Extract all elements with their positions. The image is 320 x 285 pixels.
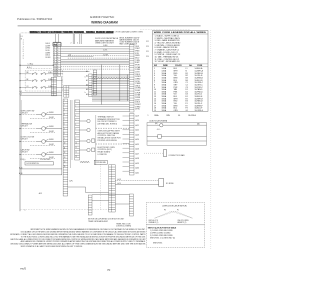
dashed link row 1	[96, 127, 130, 129]
svg-text:TIMER KEYBOARD ASSY: TIMER KEYBOARD ASSY	[88, 220, 109, 223]
svg-text:15: 15	[54, 75, 56, 77]
svg-text:B: B	[57, 57, 58, 59]
svg-text:3: 3	[23, 44, 24, 46]
wire to door motor 2	[115, 184, 159, 186]
svg-text:16-RED: 16-RED	[45, 48, 50, 50]
wire drop right	[127, 75, 129, 102]
svg-text:18-ORN-G: 18-ORN-G	[188, 115, 197, 117]
connector P2	[51, 77, 56, 96]
svg-text:B: B	[57, 43, 58, 45]
wire	[20, 92, 62, 94]
wire stub	[123, 170, 130, 172]
svg-text:14: 14	[64, 161, 66, 163]
connector P8 strip	[129, 114, 134, 176]
heading word blocks	[30, 31, 39, 33]
svg-text:ew/5: ew/5	[20, 266, 26, 270]
svg-text:26 WHT: 26 WHT	[135, 104, 141, 106]
vertical harness line	[61, 76, 63, 175]
svg-text:2 WHT: 2 WHT	[135, 48, 140, 50]
wire	[92, 96, 129, 98]
svg-text:B: B	[57, 64, 58, 66]
relay K2	[80, 148, 91, 151]
svg-text:12: 12	[64, 152, 66, 154]
A-1 dashed feed wire	[27, 68, 52, 70]
svg-text:SWITCH NO. 2 CLOSES ONLY (3): SWITCH NO. 2 CLOSES ONLY (3)	[150, 237, 175, 239]
wire drop 6	[80, 34, 82, 44]
svg-text:11: 11	[75, 147, 77, 149]
L1 feed wire	[20, 64, 53, 66]
svg-text:4 YEL: 4 YEL	[135, 53, 139, 55]
svg-text:P15: P15	[146, 51, 149, 53]
wire	[20, 174, 62, 176]
svg-text:b: b	[85, 76, 86, 78]
svg-text:8 GRY: 8 GRY	[135, 62, 139, 64]
svg-text:18-GRY: 18-GRY	[49, 157, 54, 159]
dashed link row 2	[96, 143, 130, 145]
svg-text:SWITCH NO.: SWITCH NO.	[153, 242, 163, 244]
svg-text:11: 11	[54, 66, 56, 68]
svg-text:15 RED: 15 RED	[135, 78, 141, 80]
wire code legend table	[153, 31, 209, 112]
wire stub	[123, 143, 130, 145]
left frame inner line	[20, 100, 22, 175]
group box wires	[47, 73, 63, 75]
svg-text:14-BLK: 14-BLK	[45, 43, 50, 45]
relay K4	[80, 128, 91, 131]
door switch bar	[25, 162, 53, 165]
broil terminal strip	[89, 74, 92, 97]
svg-text:18-GRY: 18-GRY	[49, 144, 54, 146]
door assembly dashed boundary	[100, 165, 102, 210]
wire	[61, 59, 130, 61]
dotted rule under header	[140, 29, 190, 31]
svg-text:B: B	[57, 45, 58, 47]
switch S5	[32, 86, 37, 88]
wire	[61, 68, 130, 70]
wire	[80, 108, 130, 110]
svg-text:OVEN LIGHT SOCKET: OVEN LIGHT SOCKET	[95, 43, 115, 45]
wire	[68, 57, 130, 59]
svg-text:16-RED: 16-RED	[49, 152, 54, 154]
svg-text:16-YEL: 16-YEL	[45, 50, 50, 52]
svg-text:1 BLK: 1 BLK	[135, 46, 139, 48]
svg-text:19: 19	[154, 110, 156, 112]
connector P1	[53, 42, 60, 76]
vertical drops through bands	[100, 65, 102, 105]
svg-text:21 PUR: 21 PUR	[135, 92, 141, 94]
wire	[68, 55, 130, 57]
wire stub	[123, 152, 130, 154]
svg-text:5 BRN: 5 BRN	[135, 55, 139, 57]
wire	[92, 81, 129, 83]
connector P30 box	[53, 43, 61, 46]
wire stub	[123, 147, 130, 149]
wire stub	[123, 166, 130, 168]
wire drop 1	[55, 34, 57, 43]
svg-text:18 BLU: 18 BLU	[135, 85, 140, 87]
svg-text:B: B	[57, 59, 58, 61]
svg-text:16-RED: 16-RED	[103, 45, 108, 47]
svg-text:B: B	[57, 68, 58, 70]
svg-text:CIRCUIT: CIRCUIT	[21, 139, 28, 141]
wire	[86, 192, 109, 194]
svg-text:12: 12	[54, 68, 56, 70]
svg-text:10: 10	[54, 64, 56, 66]
svg-text:PROPER GROUNDING: PROPER GROUNDING	[98, 140, 118, 142]
wire drop 3	[72, 34, 74, 44]
svg-text:9: 9	[23, 58, 24, 60]
svg-text:18-ORN: 18-ORN	[103, 54, 108, 56]
svg-text:6 BLU: 6 BLU	[135, 57, 139, 59]
svg-text:P3: P3	[164, 210, 166, 212]
wire stub	[123, 133, 130, 135]
contactor box1	[92, 139, 95, 142]
svg-text:FAN / LIGHT MODULE: FAN / LIGHT MODULE	[120, 43, 138, 46]
vertical harness line 3	[71, 100, 73, 160]
connector P11 strip	[129, 194, 133, 216]
svg-text:11 PNK: 11 PNK	[135, 69, 140, 71]
switch S4	[41, 79, 46, 81]
switch S2	[41, 72, 46, 74]
wire	[80, 110, 130, 112]
svg-text:18-ORN-G: 18-ORN-G	[195, 110, 204, 112]
svg-text:CONTROL (TIMER): CONTROL (TIMER)	[116, 226, 131, 228]
svg-text:G1: G1	[186, 110, 188, 112]
selector switch group box	[25, 70, 63, 91]
auto latch box	[147, 123, 207, 146]
svg-text:CONVECTION FAN: CONVECTION FAN	[168, 154, 185, 157]
svg-text:5: 5	[23, 49, 24, 51]
vertical tie line mid	[95, 115, 97, 165]
door motor box	[159, 179, 164, 187]
svg-text:ORN: ORN	[174, 110, 179, 112]
svg-text:23 PNK: 23 PNK	[135, 97, 140, 99]
svg-text:16-YEL: 16-YEL	[103, 50, 108, 52]
connector P10 strip	[88, 195, 92, 215]
svg-text:1 FOR DIAGRAM LOWER OVEN: 1 FOR DIAGRAM LOWER OVEN	[115, 31, 144, 34]
svg-text:B: B	[57, 66, 58, 68]
svg-text:19 ORN: 19 ORN	[135, 88, 140, 90]
svg-text:18GA: 18GA	[162, 109, 167, 112]
connector P6 strip	[93, 70, 96, 95]
svg-text:16-BLU: 16-BLU	[45, 55, 50, 57]
wire drop 2	[58, 34, 60, 43]
svg-text:2) OPEN CLOSED LOCKED: 2) OPEN CLOSED LOCKED	[150, 233, 171, 235]
svg-text:CIRCUIT: CIRCUIT	[21, 152, 28, 154]
svg-text:13: 13	[54, 70, 56, 72]
wire drop 5	[79, 34, 81, 44]
wire	[92, 75, 129, 77]
svg-text:1: 1	[148, 115, 149, 117]
wire	[61, 66, 130, 68]
svg-text:16-BLK: 16-BLK	[48, 79, 52, 81]
svg-text:15: 15	[64, 166, 66, 168]
svg-text:LOCATION: LOCATION	[98, 153, 108, 156]
wire	[92, 74, 129, 76]
svg-text:B: B	[57, 61, 58, 63]
wire	[61, 50, 130, 52]
wire stub	[123, 120, 130, 122]
svg-text:16-BLK: 16-BLK	[48, 86, 52, 88]
wire stub	[123, 161, 130, 163]
svg-text:WIRE CODE LEGEND FOR ALL WIRES: WIRE CODE LEGEND FOR ALL WIRES	[154, 31, 207, 34]
svg-text:P13: P13	[146, 46, 149, 48]
svg-text:10: 10	[64, 143, 66, 145]
contactor box2	[92, 148, 95, 151]
wire	[80, 106, 130, 108]
svg-text:P16: P16	[146, 56, 149, 58]
svg-text:13: 13	[75, 156, 77, 158]
wire	[69, 87, 129, 89]
connector P7 strip	[129, 45, 134, 113]
wire	[20, 94, 62, 96]
svg-text:25 BLK: 25 BLK	[135, 102, 140, 104]
svg-text:P24(+): P24(+)	[21, 159, 26, 161]
latch box divider	[147, 224, 205, 226]
wire	[92, 99, 129, 101]
relay K1	[80, 139, 91, 142]
svg-text:B: B	[57, 70, 58, 72]
svg-text:3) CLOSED OPEN UNLOCKED: 3) CLOSED OPEN UNLOCKED	[150, 235, 174, 237]
wire	[92, 91, 129, 93]
wire stub	[123, 129, 130, 131]
svg-text:Publication No. 5995447210: Publication No. 5995447210	[17, 17, 53, 21]
wire	[61, 48, 130, 50]
svg-text:B: B	[57, 75, 58, 77]
wire	[61, 62, 130, 64]
wire stub	[123, 156, 130, 158]
svg-text:28 YEL: 28 YEL	[135, 109, 140, 111]
wire	[20, 168, 62, 170]
svg-text:4: 4	[77, 43, 78, 45]
svg-text:DOOR SWITCH: DOOR SWITCH	[27, 163, 40, 165]
svg-text:13: 13	[64, 157, 66, 159]
svg-text:2: 2	[71, 43, 72, 45]
dashed wire to convection fan	[144, 152, 163, 154]
svg-text:27 RED: 27 RED	[135, 106, 141, 108]
svg-text:18-ORN: 18-ORN	[45, 57, 50, 59]
svg-text:B: B	[57, 50, 58, 52]
wire	[80, 104, 130, 106]
latch wire mid	[161, 135, 206, 137]
wire to door motor 1	[115, 180, 159, 182]
svg-text:14 WHT: 14 WHT	[135, 76, 141, 78]
svg-text:7: 7	[23, 53, 24, 55]
switch S3	[32, 79, 37, 81]
svg-text:8: 8	[23, 56, 24, 58]
latch switch box	[158, 135, 162, 139]
svg-text:B: B	[57, 55, 58, 57]
wire	[92, 90, 129, 92]
svg-text:12: 12	[75, 152, 77, 154]
switch S6	[41, 86, 46, 88]
svg-text:20 GRY: 20 GRY	[135, 90, 140, 92]
right page border	[210, 30, 212, 250]
svg-text:G1: G1	[178, 115, 180, 117]
wire	[92, 93, 129, 95]
convection fan box	[163, 150, 167, 157]
table divider	[153, 63, 209, 65]
svg-text:P20 GROUND: P20 GROUND	[40, 159, 51, 161]
svg-text:P1: P1	[177, 210, 179, 212]
latch wire 3	[147, 140, 207, 142]
connector P5 strip	[75, 100, 80, 160]
svg-text:b: b	[85, 92, 86, 94]
heading leader dots	[21, 32, 29, 34]
svg-text:12. VIOLET - KEYBOARD D3: 12. VIOLET - KEYBOARD D3	[155, 60, 180, 63]
wire	[68, 186, 86, 188]
svg-text:6: 6	[23, 51, 24, 53]
wire	[61, 46, 130, 48]
wire	[61, 64, 130, 66]
switch S1	[32, 72, 37, 74]
svg-text:14-WHT: 14-WHT	[45, 45, 50, 47]
svg-text:1: 1	[23, 40, 24, 42]
svg-text:16 YEL: 16 YEL	[135, 81, 140, 83]
latch wire mid left	[147, 135, 158, 137]
door latch switch box	[147, 203, 205, 248]
cooling fan box	[94, 160, 107, 164]
svg-text:VERIFY OPERATION OF ALL SAFETY: VERIFY OPERATION OF ALL SAFETY DEVICES B…	[21, 245, 83, 248]
svg-text:16-RED: 16-RED	[49, 126, 54, 128]
wire to lower strips	[85, 187, 87, 193]
left frame line	[19, 34, 21, 212]
wire	[92, 100, 129, 102]
svg-text:18-GRY: 18-GRY	[49, 117, 54, 119]
svg-text:UNLOCK-OPEN: UNLOCK-OPEN	[178, 220, 189, 222]
wire A-9	[61, 55, 94, 57]
svg-text:1) CLOSED OPEN UNLOCKED: 1) CLOSED OPEN UNLOCKED	[150, 230, 174, 232]
svg-text:16-RED: 16-RED	[49, 139, 54, 141]
wire P10 to P9	[92, 200, 109, 202]
svg-text:B: B	[57, 52, 58, 54]
svg-text:7 ORN: 7 ORN	[135, 60, 140, 62]
svg-text:2: 2	[23, 42, 24, 44]
svg-text:(OVEN DOOR LATCH SWITCH): (OVEN DOOR LATCH SWITCH)	[162, 204, 187, 207]
wire	[92, 82, 129, 84]
svg-text:16-BLK: 16-BLK	[48, 72, 52, 74]
wire	[69, 85, 129, 87]
wire	[61, 60, 130, 62]
wire over lower strips	[92, 194, 129, 196]
latch motor M1	[160, 124, 163, 127]
svg-text:SWITCH (LATCH) POSITION TABLE: SWITCH (LATCH) POSITION TABLE	[148, 226, 177, 229]
wire	[92, 79, 129, 81]
wire P9 to P11	[115, 203, 129, 205]
svg-text:B: B	[57, 48, 58, 50]
svg-text:16-BRN: 16-BRN	[45, 52, 50, 54]
connector P9 strip	[109, 165, 116, 212]
svg-text:13 BLK: 13 BLK	[135, 74, 140, 76]
latch wire 1	[147, 124, 160, 126]
wire stub	[123, 124, 130, 126]
svg-text:18-GRY: 18-GRY	[49, 131, 54, 133]
top heading underline	[30, 33, 114, 35]
svg-text:10: 10	[75, 142, 77, 144]
svg-text:GA.: GA.	[189, 64, 193, 67]
svg-text:P12: P12	[146, 41, 149, 43]
svg-text:11: 11	[64, 147, 66, 149]
wire	[92, 94, 129, 96]
svg-text:WIRING DIAGRAM: WIRING DIAGRAM	[91, 20, 118, 24]
svg-text:CIRCUIT: CIRCUIT	[21, 126, 28, 128]
svg-text:NO MODE: NO MODE	[166, 183, 174, 185]
svg-text:A. AUTO LATCH AREA: A. AUTO LATCH AREA	[150, 120, 168, 123]
connector P4 strip	[63, 99, 68, 196]
wire stub	[123, 138, 130, 140]
relay K3	[80, 119, 91, 122]
svg-text:16-RED: 16-RED	[49, 112, 54, 114]
connector P3	[64, 86, 69, 98]
wire	[61, 53, 130, 55]
heater resistor mid	[80, 161, 89, 162]
header rule	[18, 25, 201, 27]
wire	[92, 97, 129, 99]
svg-text:E30DF74GPSC: E30DF74GPSC	[90, 15, 114, 19]
wire drop 4	[73, 34, 75, 44]
lower frame bottom dotted line	[20, 209, 115, 211]
vertical harness line 2	[70, 100, 72, 168]
svg-text:(DETRAS DEL HORNO): (DETRAS DEL HORNO)	[98, 123, 118, 126]
svg-text:4: 4	[23, 47, 24, 49]
svg-text:70: 70	[107, 268, 111, 272]
svg-text:17 BRN: 17 BRN	[135, 83, 140, 85]
wire stub	[123, 115, 130, 117]
svg-text:4 L L: 4 L L	[157, 129, 161, 131]
wire	[61, 70, 90, 72]
